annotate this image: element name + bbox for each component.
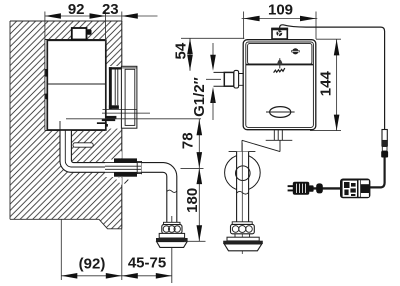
spray icon xyxy=(279,58,281,68)
adapter input cable xyxy=(313,187,340,189)
78 arrow down xyxy=(197,152,203,168)
top fitting front xyxy=(272,28,287,39)
left spreader nut xyxy=(164,222,181,225)
pipe below valve body xyxy=(274,130,282,140)
front spreader plate xyxy=(223,241,263,244)
144 dim xyxy=(310,39,341,130)
interior pipe middle line xyxy=(65,130,122,167)
front pipe edges xyxy=(237,152,249,223)
front spreader step xyxy=(227,237,259,241)
wall face chamfer wedges xyxy=(115,151,122,158)
window bottom thick line xyxy=(246,64,313,66)
svg-text:109: 109 xyxy=(268,2,293,19)
valve body inner xyxy=(246,42,314,127)
interior pipe (from box down and out) xyxy=(60,129,122,172)
svg-text:54: 54 xyxy=(172,42,189,59)
cover inner profile xyxy=(125,69,135,125)
cartridge verticals xyxy=(115,70,118,106)
78 arrow up xyxy=(197,119,203,135)
wall face line xyxy=(121,21,123,229)
small circle xyxy=(236,166,251,181)
pipe S-break left xyxy=(167,190,177,192)
AC plug body xyxy=(293,182,310,195)
54 dim line xyxy=(189,38,191,71)
adapter label xyxy=(343,181,357,197)
flush oval xyxy=(270,107,291,118)
arrow 23 right xyxy=(122,13,138,19)
cartridge top black bar xyxy=(109,67,122,69)
arrow (92) left xyxy=(61,273,77,279)
break symbol xyxy=(229,140,293,151)
coupling step xyxy=(137,161,142,174)
cistern box xyxy=(47,40,106,130)
screw in window xyxy=(292,48,298,54)
front pipe white under xyxy=(237,152,249,223)
wall hatch left band xyxy=(10,21,45,219)
arrow 92 left xyxy=(45,13,61,19)
svg-text:144: 144 xyxy=(318,71,335,97)
panel side view white underlay xyxy=(105,66,138,129)
svg-text:(92): (92) xyxy=(79,256,106,273)
svg-text:92: 92 xyxy=(68,1,85,18)
bottom dim line xyxy=(61,275,172,277)
wall outline xyxy=(10,21,122,229)
cartridge lower black bar xyxy=(105,116,116,119)
fitting nipple xyxy=(87,29,92,34)
adapter output cable xyxy=(370,158,385,188)
G1/2 inlet left of body xyxy=(214,72,225,86)
wall locknut dark xyxy=(114,158,137,162)
exterior pipe bend down xyxy=(142,163,177,223)
top dim ext lines xyxy=(45,12,122,46)
G1/2 arrows xyxy=(212,43,214,58)
panel horizontal lines xyxy=(102,109,150,113)
left spreader plate xyxy=(156,238,188,241)
svg-text:G1/2″: G1/2″ xyxy=(191,77,208,117)
left spreader step xyxy=(159,233,184,238)
cartridge mid black bar xyxy=(109,105,119,109)
arrow 92/23 mid xyxy=(90,13,106,19)
180 arrow down xyxy=(197,225,203,241)
top fitting on box xyxy=(72,28,87,40)
180 arrow up xyxy=(197,168,203,184)
wall bottom-right hatch wedge xyxy=(99,219,122,229)
box divider line xyxy=(47,83,106,85)
left spreader skirt xyxy=(157,242,188,248)
left spreader centerline xyxy=(171,216,173,283)
109 dim xyxy=(244,12,316,40)
svg-text:23: 23 xyxy=(102,1,119,18)
wall hatch face band below panel xyxy=(105,129,122,220)
front spreader skirt xyxy=(224,244,261,251)
svg-text:180: 180 xyxy=(184,188,201,213)
cover top double line xyxy=(121,67,136,69)
54 dim ref line xyxy=(181,37,244,39)
power adapter body xyxy=(340,179,370,199)
svg-text:45-75: 45-75 xyxy=(128,255,166,272)
inline connector on cable xyxy=(382,130,387,141)
arrow (92) right xyxy=(106,273,122,279)
escutcheon circle xyxy=(225,155,261,191)
front spreader nut xyxy=(232,222,252,225)
wall hatch face band above panel xyxy=(105,40,122,67)
cartridge left black band xyxy=(109,67,112,109)
sensor window xyxy=(248,44,312,64)
arrow 45-75 right xyxy=(156,273,172,279)
box left clips xyxy=(45,69,48,77)
top dim line xyxy=(45,15,158,17)
54 arrow up xyxy=(187,38,193,54)
svg-text:78: 78 xyxy=(179,132,196,149)
centerline ref A xyxy=(66,118,201,120)
cable from fitting xyxy=(280,25,385,130)
pipe inner double wall lines xyxy=(105,163,141,173)
bottom dim ext lines xyxy=(61,220,122,281)
valve body outer xyxy=(243,40,316,130)
panel bottom black connector xyxy=(102,119,115,121)
pipe stub inside box xyxy=(59,121,61,130)
78/180 dim line xyxy=(198,119,200,241)
wall hatch below recess xyxy=(45,131,105,220)
pipe through wall: white underlay xyxy=(105,160,141,178)
front centerline xyxy=(241,143,243,254)
recess outline xyxy=(45,40,105,131)
180 bottom ref line xyxy=(184,240,206,242)
ferrite bead xyxy=(316,183,323,193)
plug prongs xyxy=(288,185,293,187)
pipe center ref line xyxy=(181,167,204,169)
face break tick xyxy=(124,180,128,184)
front pipe S-break xyxy=(237,191,249,194)
wall slot xyxy=(73,143,93,147)
adapter right separator and slots xyxy=(359,180,361,197)
wall hatch top band xyxy=(45,21,122,40)
54 arrow down xyxy=(187,55,193,71)
arrow 45-75 left xyxy=(122,273,138,279)
cover outer profile xyxy=(121,66,136,128)
